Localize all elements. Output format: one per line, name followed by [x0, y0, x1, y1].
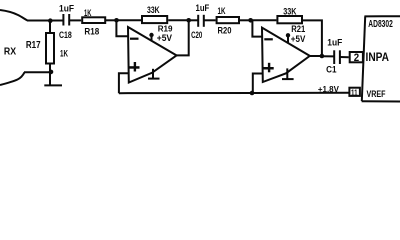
resistor R18	[82, 17, 105, 23]
AD8302 top edge	[364, 15, 400, 17]
node dot RX bottom	[49, 70, 54, 75]
svg-text:C1: C1	[326, 63, 336, 74]
wire R21 to corner and down to output node D	[303, 20, 322, 56]
minus sign U2	[264, 38, 273, 40]
minus sign U1	[130, 38, 139, 40]
wire bottom curve to ground node	[24, 71, 50, 73]
capacitor C18 left plate	[62, 14, 64, 26]
node dot B	[186, 18, 191, 23]
wire R19 to node B	[168, 19, 189, 21]
svg-text:C20: C20	[191, 29, 202, 40]
wire C1 to pin 2	[340, 56, 349, 58]
pin 11 box	[349, 88, 360, 96]
svg-text:+5V: +5V	[157, 33, 173, 43]
wire node C to R21	[251, 19, 277, 21]
ground bar RX	[44, 84, 62, 86]
node dot A	[114, 18, 119, 23]
svg-text:1K: 1K	[218, 6, 226, 16]
wire node D to C1	[322, 55, 334, 57]
ground bar U2	[282, 78, 294, 80]
svg-text:INPA: INPA	[366, 52, 390, 64]
wire top from curve to C18	[27, 20, 63, 22]
wire R18 to node A	[106, 19, 117, 21]
wire node to R17 top	[49, 21, 51, 34]
capacitor C1 left plate	[333, 50, 335, 64]
svg-text:1K: 1K	[60, 48, 68, 58]
ground stub U1	[152, 69, 154, 79]
op-amp U2 plus-input wire to bottom rail	[253, 74, 263, 94]
ground stub U2	[286, 68, 288, 79]
bottom rail +1.8V	[119, 92, 349, 94]
op-amp U2 triangle	[262, 28, 310, 82]
op-amp U1 plus-input wire to bottom rail	[119, 73, 129, 93]
wire node A down to minus input U1	[116, 20, 128, 36]
capacitor C18 right plate	[68, 14, 70, 26]
wire R20 to node C	[240, 19, 251, 21]
ground stub RX	[49, 72, 51, 84]
svg-text:1K: 1K	[84, 8, 92, 18]
RX source bottom curve	[0, 72, 25, 85]
node dot rail	[250, 91, 255, 96]
svg-text:R17: R17	[26, 40, 41, 51]
capacitor C20 right plate	[203, 15, 205, 27]
plus sign U2	[263, 63, 273, 73]
wire C18 to R18	[69, 19, 81, 21]
svg-text:1uF: 1uF	[196, 3, 210, 13]
svg-text:33K: 33K	[283, 7, 297, 17]
resistor R19	[142, 16, 167, 23]
svg-text:+1.8V: +1.8V	[318, 84, 339, 94]
RX source top curve	[0, 10, 28, 21]
plus sign U1	[129, 62, 139, 72]
svg-text:+5V: +5V	[291, 34, 306, 44]
node dot D	[320, 54, 325, 59]
wire U2 output apex to node D	[310, 55, 323, 57]
svg-text:R20: R20	[218, 26, 232, 36]
+5V dot U2	[286, 33, 290, 37]
svg-text:11: 11	[351, 88, 358, 97]
wire C20 to R20	[204, 19, 216, 21]
svg-text:C18: C18	[59, 29, 72, 40]
+5V stub U1	[151, 35, 153, 42]
svg-text:RX: RX	[4, 47, 16, 58]
node dot RX	[48, 18, 53, 23]
AD8302 left edge	[362, 17, 365, 102]
svg-text:R19: R19	[158, 24, 173, 34]
AD8302 bottom edge	[362, 100, 400, 102]
resistor R21	[277, 16, 302, 23]
wire node B down to U1 output	[177, 20, 189, 55]
wire node C down to minus input U2	[252, 20, 262, 36]
resistor R20	[217, 17, 239, 23]
svg-text:2: 2	[354, 52, 359, 64]
ground bar U1	[148, 78, 160, 80]
svg-text:33K: 33K	[147, 5, 160, 15]
svg-text:VREF: VREF	[367, 89, 386, 99]
capacitor C20 left plate	[197, 15, 199, 27]
svg-text:R18: R18	[84, 26, 99, 36]
svg-text:1uF: 1uF	[59, 3, 75, 13]
svg-text:R21: R21	[291, 24, 305, 34]
resistor R17	[46, 33, 54, 64]
op-amp U1 triangle	[128, 27, 177, 83]
wire node A to R19	[117, 19, 142, 21]
svg-text:AD8302: AD8302	[368, 19, 393, 30]
svg-text:1uF: 1uF	[327, 38, 343, 48]
wire R17 bottom to ground node	[49, 64, 51, 73]
node dot C	[248, 18, 253, 23]
+5V stub U2	[287, 35, 289, 43]
capacitor C1 right plate	[339, 50, 341, 64]
pin 2 box	[350, 52, 363, 62]
wire node B to C20	[189, 19, 198, 21]
+5V dot U1	[149, 33, 153, 37]
